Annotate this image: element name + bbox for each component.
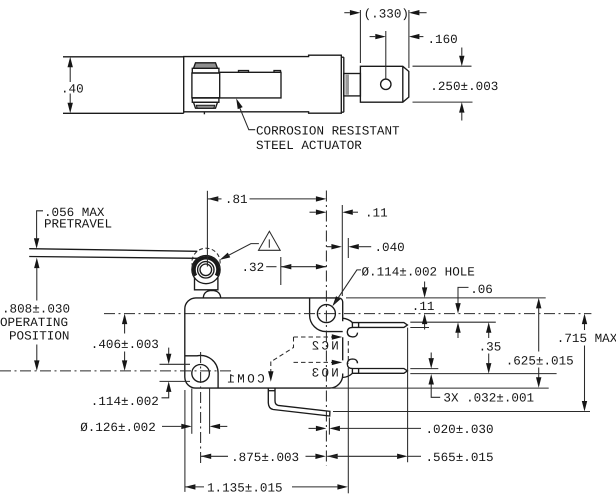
svg-text:NO3: NO3 [312,367,339,381]
svg-text:.808±.030: .808±.030 [2,302,70,316]
schematic N.C. arrowhead [332,334,343,339]
terminal blade fold line [402,66,404,102]
lever band bottom edge [63,112,184,114]
centerline horizontal through top-right hole [104,313,591,315]
body end cap line [343,57,345,112]
right side extension line terminal1 bottom [410,327,429,329]
note 1 warning triangle [259,231,281,250]
plunger dome [203,291,220,299]
extension vertical terminal shoulder upper [347,238,349,258]
terminal 1 curl [347,327,357,337]
extension vertical lever pivot [206,191,208,267]
dim .565±.015 [327,451,493,465]
extension vertical .32 reference [280,257,282,285]
mounting hole bottom-left [192,365,210,383]
switch body outline [184,55,342,113]
plunger tick [203,112,205,115]
hidden line terminal shoulder dashes [347,341,349,364]
svg-text:.06: .06 [470,283,493,297]
svg-text:NC2: NC2 [312,339,339,353]
extension vertical hole left tangent [191,389,193,434]
svg-text:PRETRAVEL: PRETRAVEL [44,218,112,232]
terminal 1 (N.C.) blade [352,323,407,328]
extension vertical hole right tangent [209,389,211,434]
svg-text:.11: .11 [412,300,435,314]
svg-text:OPERATING: OPERATING [0,316,68,330]
dim .020±.030 [309,423,494,437]
schematic dashed N.C. line [294,336,338,338]
roller bottom flange [192,98,219,102]
roller free position dashed arc [192,248,220,268]
svg-text:Ø.126±.002: Ø.126±.002 [80,421,156,435]
centerline vertical through bottom-left hole [200,352,202,464]
svg-text:.11: .11 [365,207,388,221]
body end cap bottom tick [341,111,344,113]
body outline [185,298,343,388]
dim Ø.126±.002 [80,421,227,435]
dim .875±.003 [201,451,326,465]
dim .81 [208,193,327,207]
svg-text:.114±.002: .114±.002 [91,395,159,409]
lever band top edge [63,56,184,58]
svg-text:.32: .32 [242,261,265,275]
dim .32 [242,261,327,275]
schematic dashed N.O. line [294,361,338,363]
svg-text:1.135±.015: 1.135±.015 [207,482,283,496]
svg-text:.35: .35 [479,341,502,355]
lever operating position line [29,257,198,259]
svg-text:.715 MAX: .715 MAX [557,332,616,346]
terminal 2 crimp tick [358,369,360,374]
schematic N.O. arrowhead [332,360,343,365]
svg-text:.625±.015: .625±.015 [506,355,574,369]
right side extension line body top [346,297,546,299]
svg-text:.875±.003: .875±.003 [231,451,299,465]
dim .056 MAX PRETRAVEL [34,206,112,249]
svg-text:POSITION: POSITION [9,329,69,343]
right side extension line terminal2 top [410,368,438,370]
body end cap top tick [341,56,344,58]
svg-text:STEEL ACTUATOR: STEEL ACTUATOR [256,139,362,153]
extension vertical body left edge [184,390,186,492]
COM terminal exit step [268,390,275,392]
extension lines .114 hole tangents [160,363,191,365]
svg-text:Ø.114±.002 HOLE: Ø.114±.002 HOLE [362,265,475,279]
dim .114±.002 [91,348,172,409]
svg-text:CORROSION RESISTANT: CORROSION RESISTANT [256,125,400,139]
svg-text:.565±.015: .565±.015 [426,451,494,465]
schematic common pole dashes [271,337,294,377]
centerline vertical through top-right hole [325,191,327,466]
terminal 1 crimp tick [358,323,360,328]
extension vertical terminal shoulder lower [347,368,349,494]
dim .406±.003 [91,314,159,371]
terminal hole [381,79,391,89]
dim .250±.003 [413,48,499,121]
svg-text:(.330): (.330) [364,7,409,21]
dim .160 [370,31,458,79]
lever tab left [239,71,249,73]
extension vertical body right edge [341,205,343,296]
right side extension line body bottom [332,387,549,389]
svg-text:.40: .40 [61,82,84,96]
lever free position line [29,249,197,252]
dim .625±.015 [506,298,574,388]
roller inner ring [198,262,214,278]
roller top flange [192,68,219,73]
dim .11 lower [412,282,435,330]
mounting hole boss top-right [310,298,343,332]
dim .715 MAX [557,314,616,412]
dim .040 [327,241,405,255]
extension vertical terminal tips [407,328,409,463]
COM bent terminal [268,388,330,416]
note 1 leader [218,244,258,263]
leader Ø.114±.002 HOLE [330,265,475,307]
mounting hole top-right [317,305,335,323]
dim .11 upper [310,207,388,221]
terminal neck shade [345,75,349,95]
leader corrosion resistant steel actuator [234,97,400,152]
svg-text:.250±.003: .250±.003 [430,80,498,94]
dim .35 [479,322,502,373]
roller hub [200,264,212,276]
terminal 2 neck bottom [343,373,353,377]
dim .06 [455,283,493,338]
centerline horizontal through bottom-left hole [0,370,231,372]
roller bottom cap shade [196,105,214,108]
right side extension line terminal1 top [410,321,496,323]
right side extension line terminal2 bottom [410,373,556,375]
dim .808±.030 OPERATING POSITION [0,258,70,371]
extension vertical COM tip offset [328,418,330,435]
mounting hole boss bottom-left [185,355,218,388]
svg-text:.406±.003: .406±.003 [91,338,159,352]
right side extension line COM terminal tip [333,411,590,413]
terminal 1 neck top [343,318,353,322]
dim 3X .032±.001 [429,353,535,406]
roller top cap [194,63,218,69]
terminal blade [360,66,408,102]
svg-text:.81: .81 [225,193,248,207]
dim .40 extension-free arrows [61,57,84,114]
lever plate (plan) [193,72,281,98]
dim 1.135±.015 [185,482,348,496]
lever pivot bracket [195,278,218,290]
roller barrel [192,73,220,98]
roller outer circle [192,256,220,284]
terminal 2 curl [347,359,357,369]
dim (.330) [344,7,426,68]
roller wrap (curled lever end) [194,258,218,276]
svg-text:.160: .160 [428,33,458,47]
roller bottom cap [194,102,218,108]
svg-text:3X .032±.001: 3X .032±.001 [443,391,534,405]
lever tab right [274,71,281,73]
terminal neck [344,74,361,96]
schematic COM arrowhead [268,371,273,382]
terminal 2 (N.O.) blade [352,369,407,374]
svg-text:.040: .040 [375,241,405,255]
svg-text:.020±.030: .020±.030 [426,423,494,437]
